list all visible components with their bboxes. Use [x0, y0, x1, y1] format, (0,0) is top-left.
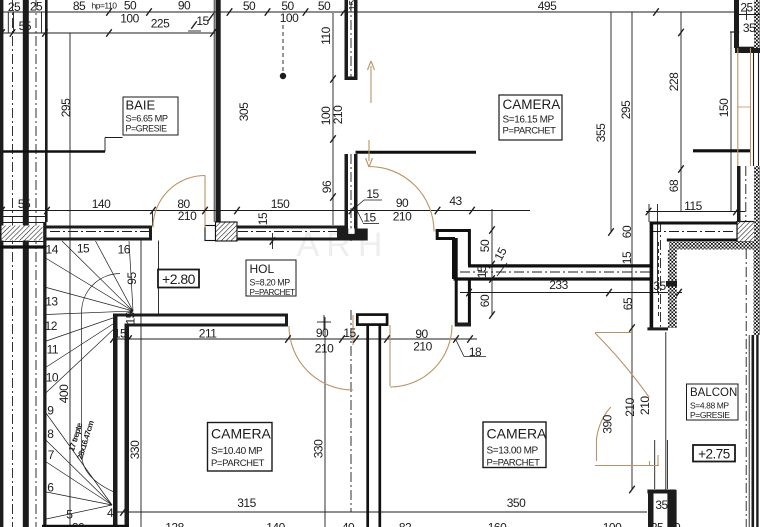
- svg-text:50: 50: [318, 0, 331, 13]
- svg-text:96: 96: [320, 180, 334, 193]
- svg-text:S=8.20 MP: S=8.20 MP: [250, 278, 291, 288]
- svg-text:12: 12: [45, 319, 58, 333]
- svg-text:BAIE: BAIE: [126, 98, 156, 113]
- svg-text:25: 25: [30, 0, 43, 14]
- svg-text:9: 9: [47, 404, 54, 418]
- svg-text:10: 10: [668, 521, 681, 527]
- svg-text:210: 210: [623, 397, 637, 416]
- svg-text:140: 140: [266, 521, 285, 527]
- svg-text:7: 7: [48, 448, 55, 462]
- svg-text:P=PARCHET: P=PARCHET: [250, 288, 296, 297]
- svg-text:S=4.88 MP: S=4.88 MP: [690, 401, 729, 411]
- svg-text:50: 50: [243, 0, 256, 13]
- svg-text:25: 25: [8, 0, 21, 14]
- svg-text:8: 8: [47, 427, 54, 441]
- svg-text:210: 210: [638, 396, 652, 415]
- svg-text:20: 20: [72, 521, 85, 527]
- svg-text:90: 90: [396, 196, 409, 210]
- svg-text:330: 330: [128, 440, 142, 459]
- svg-text:10: 10: [46, 370, 59, 384]
- svg-text:15: 15: [256, 212, 270, 225]
- svg-text:S=16.15 MP: S=16.15 MP: [503, 115, 555, 126]
- svg-text:11: 11: [47, 342, 59, 356]
- svg-text:14: 14: [46, 242, 59, 256]
- svg-text:S=13.00 MP: S=13.00 MP: [487, 446, 539, 457]
- svg-text:S=10.40 MP: S=10.40 MP: [211, 446, 263, 457]
- svg-text:110: 110: [319, 26, 333, 44]
- svg-text:228: 228: [667, 72, 681, 91]
- svg-text:6: 6: [47, 480, 54, 494]
- svg-text:355: 355: [594, 123, 608, 142]
- svg-text:400: 400: [57, 384, 71, 403]
- svg-text:95: 95: [125, 272, 139, 285]
- svg-text:15: 15: [343, 326, 356, 340]
- svg-text:13: 13: [45, 295, 58, 309]
- svg-text:210: 210: [178, 209, 197, 223]
- svg-text:295: 295: [59, 98, 73, 117]
- svg-text:55: 55: [18, 197, 31, 211]
- svg-text:65: 65: [621, 297, 635, 310]
- svg-text:210: 210: [393, 210, 412, 224]
- svg-text:15: 15: [475, 265, 489, 278]
- svg-text:P=GRESIE: P=GRESIE: [690, 410, 730, 420]
- svg-text:25: 25: [740, 1, 753, 15]
- svg-text:82: 82: [399, 521, 412, 527]
- svg-text:160: 160: [488, 521, 507, 527]
- svg-text:35: 35: [655, 498, 668, 512]
- svg-text:15: 15: [363, 210, 376, 224]
- svg-text:60: 60: [620, 225, 634, 238]
- svg-text:315: 315: [237, 496, 256, 510]
- svg-text:16: 16: [118, 242, 131, 256]
- svg-text:15: 15: [114, 327, 127, 341]
- svg-text:100: 100: [280, 11, 299, 25]
- svg-text:BALCON: BALCON: [690, 387, 737, 399]
- svg-text:330: 330: [312, 439, 326, 458]
- svg-text:115: 115: [684, 199, 702, 213]
- svg-text:4: 4: [107, 506, 114, 520]
- svg-text:15: 15: [620, 251, 634, 264]
- svg-text:50: 50: [478, 239, 492, 252]
- svg-text:15: 15: [77, 241, 90, 255]
- svg-text:5: 5: [66, 508, 73, 522]
- svg-text:85: 85: [73, 0, 86, 13]
- svg-text:390: 390: [601, 414, 615, 433]
- svg-text:25: 25: [651, 521, 664, 527]
- svg-text:211: 211: [199, 326, 217, 340]
- svg-text:140: 140: [92, 197, 111, 211]
- svg-text:100: 100: [603, 521, 622, 527]
- svg-text:40: 40: [342, 521, 355, 527]
- svg-text:P=PARCHET: P=PARCHET: [211, 458, 265, 469]
- svg-text:CAMERA: CAMERA: [503, 97, 561, 112]
- svg-text:+2.75: +2.75: [698, 447, 730, 462]
- svg-text:55: 55: [19, 19, 32, 33]
- svg-text:90: 90: [178, 0, 191, 13]
- svg-text:P=PARCHET: P=PARCHET: [503, 126, 557, 137]
- svg-text:233: 233: [549, 278, 568, 292]
- svg-text:+2.80: +2.80: [162, 271, 196, 287]
- svg-text:35: 35: [653, 279, 666, 293]
- svg-text:hp=110: hp=110: [92, 1, 118, 11]
- svg-text:S=6.65 MP: S=6.65 MP: [126, 114, 168, 124]
- svg-text:90: 90: [316, 326, 329, 340]
- svg-text:495: 495: [538, 0, 557, 13]
- svg-text:150: 150: [271, 197, 290, 211]
- svg-text:295: 295: [619, 100, 633, 119]
- svg-text:150: 150: [717, 98, 731, 117]
- svg-text:210: 210: [315, 342, 334, 356]
- svg-text:60: 60: [478, 294, 492, 307]
- svg-text:68: 68: [667, 179, 681, 192]
- svg-text:P=PARCHET: P=PARCHET: [487, 458, 541, 469]
- svg-text:350: 350: [507, 496, 526, 510]
- svg-text:100: 100: [120, 12, 139, 26]
- svg-text:P=GRESIE: P=GRESIE: [126, 124, 168, 134]
- svg-text:210: 210: [331, 105, 345, 124]
- svg-text:15: 15: [348, 0, 359, 11]
- svg-text:15: 15: [366, 187, 379, 201]
- svg-text:CAMERA: CAMERA: [211, 426, 272, 442]
- svg-text:305: 305: [237, 102, 251, 121]
- svg-text:210: 210: [413, 339, 432, 353]
- svg-text:43: 43: [449, 194, 462, 208]
- svg-text:225: 225: [151, 17, 170, 31]
- svg-text:35: 35: [743, 21, 756, 35]
- svg-text:HOL: HOL: [250, 262, 275, 276]
- svg-text:15: 15: [124, 311, 138, 324]
- svg-text:128: 128: [165, 521, 184, 527]
- svg-text:CAMERA: CAMERA: [487, 426, 548, 442]
- svg-text:15: 15: [196, 14, 209, 28]
